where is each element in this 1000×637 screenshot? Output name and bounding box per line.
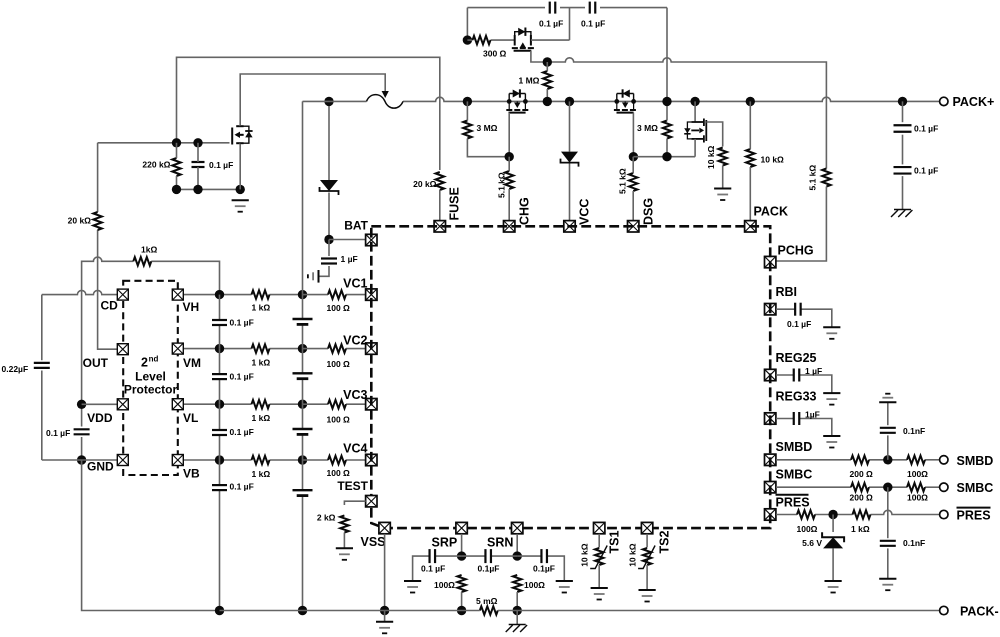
svg-text:0.1 µF: 0.1 µF <box>914 166 938 176</box>
junction SRP node <box>457 551 466 560</box>
junction small FET on rail <box>690 97 699 106</box>
label 100 Ohm (VC3) <box>327 415 351 425</box>
capacitor 0.1nF (SMBC) <box>880 541 896 546</box>
label VC2 <box>343 334 367 348</box>
wire cell column seg 1 <box>302 295 304 349</box>
label 100 Ohm (SRN) <box>524 580 545 590</box>
svg-text:VM: VM <box>183 356 201 370</box>
junction SRN node <box>513 551 522 560</box>
svg-text:GND: GND <box>87 460 114 474</box>
svg-text:CD: CD <box>100 299 118 313</box>
label 0.1 uF (top left) <box>539 19 563 29</box>
label SRN <box>487 536 513 550</box>
svg-text:PACK-: PACK- <box>960 605 999 619</box>
label 0.22uF <box>2 364 29 374</box>
battery cell 4 <box>293 490 313 495</box>
svg-text:0.1 µF: 0.1 µF <box>230 482 254 492</box>
pin PRES <box>765 509 776 520</box>
label CHG <box>518 197 532 225</box>
pin REG33 <box>765 413 776 424</box>
wire cap column seg 2 <box>219 349 221 405</box>
junction PACK pull on rail <box>746 97 755 106</box>
svg-text:PRES: PRES <box>776 496 810 510</box>
label VC3 <box>343 388 367 402</box>
battery cell 2 <box>293 373 313 378</box>
label PACK <box>754 205 789 219</box>
label 5.6 V <box>802 538 822 548</box>
capacitor 0.1nF (SMBD) <box>880 428 896 433</box>
junction cap column row 1 <box>215 290 224 299</box>
label 100 Ohm (VC4) <box>327 468 351 478</box>
resistor 220 kOhm <box>172 143 180 190</box>
resistor 100 Ohm (VC2) <box>328 344 346 352</box>
label 100 Ohm (SMBD) <box>907 469 928 479</box>
resistor 20 kOhm (OUT) <box>93 212 101 230</box>
svg-text:SMBC: SMBC <box>957 481 994 495</box>
wire top caps mid <box>560 7 585 9</box>
svg-text:VC2: VC2 <box>343 334 367 348</box>
wire VC4 row ladder <box>220 459 303 461</box>
label 0.1 uF (PACK+ b) <box>914 166 938 176</box>
junction cell column bottom <box>298 606 307 615</box>
label 0.1 uF (top right) <box>581 19 605 29</box>
capacitor 0.1 uF (SRN right) <box>541 549 547 563</box>
label FUSE <box>448 187 462 220</box>
svg-text:SMBD: SMBD <box>776 440 813 454</box>
svg-text:2 kΩ: 2 kΩ <box>317 513 336 523</box>
capacitor 0.22 uF <box>34 363 50 368</box>
svg-text:0.1µF: 0.1µF <box>533 564 555 574</box>
svg-text:100Ω: 100Ω <box>797 524 818 534</box>
IC 2nd Level Protector (dashed box) <box>123 281 178 475</box>
label PACK- <box>960 605 999 619</box>
wire VCC column <box>569 101 571 220</box>
wire VC1/CD row (left) <box>42 290 118 294</box>
label 10 kOhm (PACK) <box>761 155 785 165</box>
wire RBI cap <box>776 309 832 327</box>
svg-text:0.1 µF: 0.1 µF <box>230 318 254 328</box>
junction SMBC filter <box>883 483 892 492</box>
pin VC1 <box>366 289 377 300</box>
label 0.1 uF (SRP left) <box>421 564 445 574</box>
resistor 100 Ohm (SRN) <box>513 575 521 611</box>
label 5.1 kOhm (DSG) <box>618 168 628 194</box>
label 0.1 uF (SRN right) <box>533 564 555 574</box>
capacitor 0.1 uF (VC4 filter) <box>212 485 227 490</box>
diode Schottky (VCC) <box>561 152 579 167</box>
label OUT <box>83 356 109 370</box>
svg-text:20 kΩ: 20 kΩ <box>413 179 437 189</box>
resistor 5 mOhm (sense) <box>480 606 498 614</box>
resistor 100 Ohm (VC4) <box>328 456 346 464</box>
terminal SMBC <box>940 483 948 491</box>
junction SRP rail <box>457 606 466 615</box>
ground (VSS) <box>376 622 393 634</box>
label VL <box>183 411 198 425</box>
svg-text:0.22µF: 0.22µF <box>2 364 29 374</box>
svg-text:VDD: VDD <box>87 411 113 425</box>
capacitor 1 uF (REG25) <box>794 369 800 382</box>
resistor 100 Ohm (SRP) <box>457 575 465 611</box>
wire to inverted ground <box>887 402 889 425</box>
label DSG <box>642 198 656 225</box>
ground (BAT cap, sideways) <box>308 270 319 283</box>
junction 1M bottom on rail <box>543 97 552 106</box>
svg-text:SRN: SRN <box>487 536 513 550</box>
arrow into fuse <box>382 91 389 98</box>
svg-text:VL: VL <box>183 411 198 425</box>
junction VDD <box>77 400 86 409</box>
capacitor 1 uF (BAT) <box>321 259 337 264</box>
svg-text:TS2: TS2 <box>658 531 672 554</box>
wire GND column to PACK- rail <box>82 460 220 611</box>
label VB <box>183 467 200 481</box>
junction 0.1uF top <box>193 138 202 147</box>
label 1 kOhm (VC2) <box>252 358 271 368</box>
wire REG25 cap <box>776 375 832 393</box>
transistor DSG power FET <box>614 89 636 112</box>
junction cap column row 2 <box>215 344 224 353</box>
svg-text:100 Ω: 100 Ω <box>327 415 351 425</box>
label SRP <box>432 536 458 550</box>
ground (REG25) <box>823 393 840 405</box>
wire small FET source <box>694 139 696 157</box>
wire VH to cap column <box>184 294 220 296</box>
junction 3M DSG on rail <box>662 97 671 106</box>
pin GND <box>117 455 128 466</box>
svg-text:0.1nF: 0.1nF <box>903 538 925 548</box>
svg-text:0.1 µF: 0.1 µF <box>914 124 938 134</box>
label VC1 <box>343 277 367 291</box>
junction DSG gate node <box>629 152 638 161</box>
wire VL to cap column <box>184 403 220 405</box>
svg-text:0.1 µF: 0.1 µF <box>421 564 445 574</box>
ground (PACK+ filter, earth) <box>891 210 912 218</box>
svg-text:SMBC: SMBC <box>776 468 813 482</box>
label 20 kOhm (FUSE) <box>413 179 437 189</box>
junction BAT node <box>324 235 333 244</box>
wire SRP-SRN cap <box>462 555 518 557</box>
wire DSG gate row <box>633 156 695 158</box>
junction VSS on rail <box>380 606 389 615</box>
svg-text:DSG: DSG <box>642 198 656 225</box>
label 10 kOhm (TS2) <box>628 543 638 567</box>
wire VC1 row ladder <box>220 294 303 296</box>
label 1 kOhm (VC4) <box>252 469 271 479</box>
pin CD <box>117 289 128 300</box>
terminal SMBD <box>940 456 948 464</box>
svg-text:PRES: PRES <box>957 509 991 523</box>
svg-text:5.1 kΩ: 5.1 kΩ <box>808 165 818 191</box>
resistor 200 Ohm (SMBD) <box>851 456 869 464</box>
svg-text:FUSE: FUSE <box>448 187 462 220</box>
wire SMBC filter cap down <box>887 487 889 538</box>
pin FUSE <box>434 221 445 232</box>
svg-text:1 µF: 1 µF <box>341 254 358 264</box>
wire PACK+ filter caps <box>902 101 904 209</box>
svg-text:VSS: VSS <box>361 535 386 549</box>
label 0.1 uF (PACK+ a) <box>914 124 938 134</box>
svg-text:300 Ω: 300 Ω <box>483 49 507 59</box>
wire PACK+ rail <box>303 97 944 101</box>
resistor 1 kOhm (VC3) <box>252 400 270 408</box>
capacitor 0.1 uF (VDD) <box>74 429 90 434</box>
pin SMBD <box>765 454 776 465</box>
wire fuse-driver top rail (gate node) <box>98 142 230 144</box>
wire VC3 row ladder <box>220 403 303 405</box>
label 0.1nF (SMBD) <box>903 426 925 436</box>
transistor Q fuse-blow NMOS <box>232 118 252 152</box>
svg-text:nd: nd <box>149 355 159 364</box>
svg-text:0.1 µF: 0.1 µF <box>209 160 233 170</box>
svg-text:20 kΩ: 20 kΩ <box>68 216 92 226</box>
label PACK+ <box>953 95 995 109</box>
wire SRN down <box>516 534 518 556</box>
transistor fuse FET (top, horizontal) <box>512 28 534 51</box>
pin VSS <box>379 522 390 533</box>
wire cell column seg 4 <box>302 460 304 611</box>
wire PACK- rail <box>220 610 940 612</box>
svg-text:100Ω: 100Ω <box>907 493 928 503</box>
ground (SMBD cap, inverted) <box>879 394 896 403</box>
ground (fuse driver source) <box>232 200 249 212</box>
resistor 1 kOhm (VC2) <box>252 344 270 352</box>
label SMBD (pin) <box>776 440 813 454</box>
wire 0.22uF branch <box>41 295 43 460</box>
resistor 100 Ohm (VC1) <box>328 290 346 298</box>
svg-text:200 Ω: 200 Ω <box>850 469 874 479</box>
wire 300R to FET <box>467 39 514 41</box>
svg-text:0.1 µF: 0.1 µF <box>46 428 70 438</box>
label 220 kOhm <box>142 160 170 170</box>
resistor 5.1 kOhm (DSG) <box>629 157 637 221</box>
label 5 mOhm <box>476 596 498 606</box>
ground (REG33) <box>823 436 840 448</box>
ground (SRP left) <box>404 581 421 593</box>
svg-text:3 MΩ: 3 MΩ <box>637 123 658 133</box>
resistor 1 MOhm <box>543 62 551 101</box>
svg-text:1 kΩ: 1 kΩ <box>851 524 870 534</box>
pin BAT <box>366 234 377 245</box>
junction CHG gate node <box>505 152 514 161</box>
svg-text:0.1 µF: 0.1 µF <box>539 19 563 29</box>
capacitor 0.1 uF (top left) <box>550 2 556 14</box>
junction 3M DSG bottom <box>662 152 671 161</box>
svg-text:VC4: VC4 <box>343 442 367 456</box>
capacitor 0.1 uF (VC3 filter) <box>212 430 227 435</box>
fuse (chemical fuse in rail) <box>367 95 404 109</box>
resistor 100 Ohm (SMBC) <box>907 483 925 491</box>
label 20 kOhm (OUT) <box>68 216 92 226</box>
wire cell column seg 3 <box>302 404 304 460</box>
junction 220k bottom <box>172 185 181 194</box>
svg-text:REG25: REG25 <box>776 351 817 365</box>
junction cell column row 4 <box>298 455 307 464</box>
svg-text:VCC: VCC <box>578 199 592 225</box>
label PRES (pin) <box>776 495 810 510</box>
pin VM <box>172 343 183 354</box>
capacitor 0.1 uF (PACK+ b) <box>894 167 912 174</box>
wire SRP down <box>461 534 463 556</box>
label VCC <box>578 199 592 225</box>
svg-text:VC1: VC1 <box>343 277 367 291</box>
svg-text:1 kΩ: 1 kΩ <box>252 303 271 313</box>
wire BAT 1uF branch <box>319 240 330 277</box>
svg-text:1kΩ: 1kΩ <box>141 245 157 255</box>
pin VC3 <box>366 399 377 410</box>
svg-text:3 MΩ: 3 MΩ <box>477 123 498 133</box>
pin CHG <box>504 221 515 232</box>
wire SMBD filter cap up <box>887 435 889 459</box>
resistor 1 kOhm (CD-VH bypass) <box>133 257 151 265</box>
label 100 Ohm (VC2) <box>327 359 351 369</box>
label CD <box>100 299 118 313</box>
svg-text:0.1 µF: 0.1 µF <box>230 372 254 382</box>
junction cell column row 3 <box>298 400 307 409</box>
svg-text:100 Ω: 100 Ω <box>327 359 351 369</box>
pin VC4 <box>366 454 377 465</box>
svg-text:10 kΩ: 10 kΩ <box>706 145 716 169</box>
svg-text:0.1µF: 0.1µF <box>478 564 500 574</box>
svg-text:TS1: TS1 <box>608 531 622 554</box>
svg-text:100 Ω: 100 Ω <box>327 303 351 313</box>
svg-text:VC3: VC3 <box>343 388 367 402</box>
wire VC2 row ladder <box>220 348 303 350</box>
junction cell column row 1 <box>298 290 307 299</box>
wire VM to cap column <box>184 348 220 350</box>
label 1 uF (REG25) <box>805 366 822 376</box>
label 200 Ohm (SMBC) <box>850 493 874 503</box>
resistor 2 kOhm (TEST) <box>340 516 348 549</box>
wire SRN cap right <box>517 556 564 581</box>
wire top cell to PACK+ rail <box>302 101 304 294</box>
terminal PACK- <box>940 606 948 614</box>
label VSS <box>361 535 386 549</box>
wire SMBC row <box>776 486 940 488</box>
label VM <box>183 356 201 370</box>
label REG25 <box>776 351 817 365</box>
resistor 1 kOhm (PRES) <box>853 510 871 518</box>
wire REG33 cap <box>776 419 832 436</box>
junction 1M top <box>543 57 552 66</box>
label SMBC (pin) <box>776 468 813 482</box>
label 0.1 uF (SRP-SRN) <box>478 564 500 574</box>
capacitor 0.1 uF (VC2 filter) <box>212 374 227 379</box>
label SMBD (terminal) <box>957 454 994 468</box>
junction SRN rail <box>513 606 522 615</box>
pin VB <box>172 455 183 466</box>
pin VH <box>172 289 183 300</box>
resistor 100 Ohm (VC3) <box>328 400 346 408</box>
pin TEST <box>366 496 377 507</box>
svg-text:0.1 µF: 0.1 µF <box>581 19 605 29</box>
wire top caps right leg <box>600 8 667 102</box>
pin SRP <box>456 522 467 533</box>
capacitor 0.1 uF (SRP left) <box>430 549 436 563</box>
junction cap column bottom <box>215 606 224 615</box>
svg-text:0.1 µF: 0.1 µF <box>230 427 254 437</box>
svg-text:5 mΩ: 5 mΩ <box>476 596 498 606</box>
transistor PACK-detect FET <box>684 101 706 142</box>
wire VDD stub <box>82 403 118 405</box>
svg-text:BAT: BAT <box>344 219 368 233</box>
battery cell 3 <box>293 429 313 434</box>
resistor 10 kOhm (detect) <box>719 148 727 189</box>
label 1 kOhm (PRES) <box>851 524 870 534</box>
junction SMBD filter <box>883 455 892 464</box>
label GND <box>87 460 114 474</box>
wire VB to cap column <box>184 459 220 461</box>
label 100 Ohm (SMBC) <box>907 493 928 503</box>
svg-text:0.1 µF: 0.1 µF <box>787 319 811 329</box>
terminal PRES <box>940 510 948 518</box>
junction cap column row 4 <box>215 455 224 464</box>
pin RBI <box>765 304 776 315</box>
svg-text:200 Ω: 200 Ω <box>850 493 874 503</box>
label PRES (terminal) <box>957 508 991 523</box>
resistor 100 Ohm (PRES) <box>797 510 815 518</box>
label REG33 <box>776 390 817 404</box>
resistor 20 kOhm (FUSE) <box>436 172 444 221</box>
label 0.1 uF (filter 1) <box>230 318 254 328</box>
wire VC1 100 Ohm to pin <box>303 294 366 296</box>
wire PRES row <box>776 510 940 514</box>
pin SRN <box>512 522 523 533</box>
svg-text:2: 2 <box>141 356 148 370</box>
label VC4 <box>343 442 367 456</box>
label 1 kOhm (bypass) <box>141 245 157 255</box>
pin PCHG <box>765 256 776 267</box>
wire VC2 100 Ohm to pin <box>303 348 366 350</box>
IC AFE (dashed box) <box>371 226 770 528</box>
label 5.1 kOhm (CHG) <box>497 172 507 198</box>
resistor 300 Ohm <box>473 36 491 44</box>
svg-text:10 kΩ: 10 kΩ <box>580 543 590 567</box>
junction cap column row 3 <box>215 400 224 409</box>
junction caps left leg on rail <box>463 97 472 106</box>
resistor 3 MOhm (DSG) <box>663 101 671 156</box>
resistor 1 kOhm (VC1) <box>252 290 270 298</box>
svg-text:PACK+: PACK+ <box>953 95 995 109</box>
wire cap column seg 1 <box>219 295 221 349</box>
label 0.1 uF (filter 2) <box>230 372 254 382</box>
wire cap column seg 4 <box>219 460 221 611</box>
terminal PACK+ <box>940 97 948 105</box>
label 100 Ohm (SRP) <box>434 580 455 590</box>
svg-text:1 kΩ: 1 kΩ <box>252 413 271 423</box>
svg-text:0.1nF: 0.1nF <box>903 426 925 436</box>
label 1 MOhm <box>519 76 540 86</box>
capacitor 0.1 uF (SRP-SRN) <box>485 549 491 563</box>
wire caps midpoint tap <box>569 8 571 41</box>
label 1 uF (BAT) <box>341 254 358 264</box>
wire 1 kOhm bypass row <box>82 257 220 404</box>
junction fuse gate node / 220k top <box>172 138 181 147</box>
ground (10k detect) <box>714 189 731 201</box>
label VDD <box>87 411 113 425</box>
junction 300R node <box>463 35 472 44</box>
label 2 kOhm (TEST) <box>317 513 336 523</box>
wire fuse-driver source rail <box>177 188 241 190</box>
svg-text:RBI: RBI <box>776 285 798 299</box>
svg-text:5.6 V: 5.6 V <box>802 538 822 548</box>
svg-text:PCHG: PCHG <box>778 244 814 258</box>
svg-text:Protector: Protector <box>124 383 178 397</box>
svg-text:1 µF: 1 µF <box>805 366 822 376</box>
wire SMBD row <box>776 459 940 461</box>
pin REG25 <box>765 369 776 380</box>
svg-text:CHG: CHG <box>518 197 532 225</box>
